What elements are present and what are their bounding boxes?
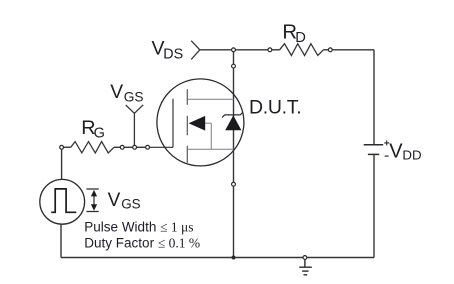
wire: drain vertical, node A down through MOSFET to bottom rail [233,52,235,258]
body diode D1 triangle [226,116,241,130]
svg-text:Duty Factor ≤ 0.1 %: Duty Factor ≤ 0.1 % [84,236,200,251]
MOSFET U1 body arrow head [189,116,206,131]
MOSFET U1 source stub [188,148,234,150]
dimension arrow head up [91,190,97,197]
wire: RD right terminal to top-right corner [332,49,374,51]
junction dot: source to bottom rail [232,256,236,260]
MOSFET U1 gate lead and gate bar [149,99,173,148]
svg-text:DS: DS [163,46,183,62]
svg-text:D: D [295,30,306,46]
RG left terminal circle [60,145,64,149]
MOSFET U1 body circle [157,79,244,166]
MOSFET U1 body connection wire [204,123,211,149]
dimension marker bars [86,189,98,212]
body diode D1 cathode bar with ticks [222,112,243,117]
wire: battery minus plate down to bottom-right corner [373,154,375,257]
node B: drain connector circle [232,64,236,68]
gate node circle 2 [133,145,137,149]
wire: zigzag to gate node 1 [114,146,120,148]
RD right terminal circle [328,48,332,52]
wire: bottom ground rail [61,257,374,259]
wire: top rail, VDS probe tip to RD left terminal [200,49,268,51]
gate node circle 1 [120,145,124,149]
wire: RD left terminal to zigzag [272,49,280,51]
wire: RG left terminal to zigzag [64,146,71,148]
ground node circle [303,256,307,260]
resistor RG [71,142,114,153]
dimension arrow head down [91,204,97,211]
battery minus sign [385,155,389,157]
svg-text:V: V [110,82,123,103]
svg-text:G: G [94,126,105,142]
battery plus sign [384,140,389,145]
VDS probe arrowhead [191,41,200,60]
dimension double arrow shaft [93,195,95,207]
svg-text:GS: GS [121,197,140,212]
svg-text:D.U.T.: D.U.T. [249,97,301,119]
pulse waveform symbol [51,189,76,212]
node A: top rail junction circle [232,48,236,52]
svg-text:GS: GS [124,90,144,105]
VGS probe arrowhead and stem [126,105,144,146]
pulse generator V2 circle [40,179,85,224]
MOSFET U1 drain stub [188,98,234,100]
gate node circle 3 [146,145,150,149]
wire: gate node 2 to gate node 3 [137,146,146,148]
resistor RD [280,44,324,56]
node C: source connector circle [232,182,236,186]
battery V1 positive plate [364,144,384,146]
RD left terminal circle [268,48,272,52]
wire: zigzag to RD right terminal [323,49,328,51]
wire: RG terminal down to pulse generator [61,149,63,179]
MOSFET U1 channel dashed line [186,89,188,162]
svg-text:V: V [108,190,121,211]
battery V1 negative plate [368,153,379,155]
ground symbol [299,259,312,274]
wire: pulse generator down to bottom rail [60,224,62,257]
wire: gate node 1 to gate node 2 [124,146,133,148]
svg-text:Pulse Width ≤ 1 μs: Pulse Width ≤ 1 μs [84,220,193,235]
wire: right rail down to battery plus plate [373,50,375,145]
svg-text:V: V [389,140,403,162]
svg-text:DD: DD [402,148,421,163]
